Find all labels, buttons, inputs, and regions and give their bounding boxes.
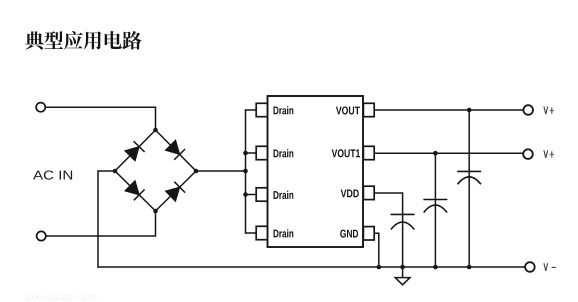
wire bridge left node to DC minus rail [98, 171, 115, 267]
label GND [340, 230, 358, 238]
diode D2 [165, 140, 185, 160]
wire C3 branch [468, 110, 470, 267]
title char 应 [64, 31, 83, 50]
wire GND pin to bottom rail [374, 233, 379, 267]
pin Drain4 square [256, 226, 267, 239]
wire drain bus vertical [245, 110, 247, 233]
title char 电 [105, 31, 122, 49]
label VOUT [336, 107, 360, 115]
label Drain pin1 [274, 106, 294, 114]
terminal V+ top [523, 105, 533, 115]
junction dot bridge top [153, 128, 158, 133]
label Drain pin2 [274, 149, 294, 157]
terminal AC bottom [37, 231, 46, 240]
junction dot bus pin3 [243, 192, 248, 197]
pin VOUT1 square [363, 146, 374, 159]
wire bridge edge top-right [156, 130, 197, 171]
wire bus stub pin4 [246, 232, 257, 234]
junction dot VOUT rail [467, 108, 472, 113]
IC body U1 [268, 96, 364, 247]
wire C2 branch [434, 153, 436, 267]
junction dot bus input [243, 169, 248, 174]
diode D1 [125, 141, 145, 161]
label VDD [341, 190, 359, 198]
junction dot bridge right [194, 169, 199, 174]
label V- bottom [544, 263, 556, 271]
junction dot bus pin2 [243, 151, 248, 156]
terminal V+ mid [523, 149, 533, 159]
watermark [25, 295, 96, 300]
wire bridge edge bottom-left [115, 171, 156, 211]
label V+ mid [544, 150, 554, 158]
label Drain pin4 [274, 229, 294, 237]
wire VOUT1 pin to V+ terminal [374, 152, 523, 154]
pin Drain1 square [256, 103, 267, 116]
wire AC top terminal to bridge top node [45, 107, 155, 130]
junction dot rail at C1 [400, 265, 405, 270]
wire bridge edge bottom-right [156, 171, 197, 211]
capacitor C1 [391, 214, 415, 229]
title char 用 [84, 31, 102, 49]
title char 典 [25, 31, 44, 49]
wire VOUT pin to V+ terminal [374, 109, 523, 111]
pin VOUT square [363, 103, 374, 116]
capacitor C2 [423, 200, 447, 213]
junction dot rail at GND stub [377, 265, 382, 270]
pin Drain2 square [256, 146, 267, 159]
wire AC bottom terminal to bridge bottom node [46, 211, 156, 236]
label V+ top [544, 107, 554, 115]
diode D4 [165, 182, 185, 202]
wire bus stub pin1 [246, 109, 257, 111]
title char 路 [122, 31, 141, 49]
wire VDD pin to C1 branch [374, 193, 402, 267]
label Drain pin3 [274, 191, 294, 199]
junction dot rail at C3 [467, 265, 472, 270]
junction dot bridge bottom [153, 209, 158, 214]
wire bottom rail [98, 266, 525, 268]
wire bridge edge top-left [115, 130, 156, 171]
capacitor C3 [457, 171, 481, 184]
wire ground stub [402, 267, 404, 278]
wire bus stub pin2 [246, 152, 257, 154]
ground symbol [395, 278, 410, 285]
wire bus stub pin3 [246, 194, 257, 196]
pin GND square [363, 227, 374, 240]
diode D3 [125, 181, 145, 201]
pin VDD square [363, 186, 374, 199]
label AC IN [33, 171, 72, 180]
label VOUT1 [332, 149, 360, 157]
junction dot bridge left [113, 169, 118, 174]
pin Drain3 square [256, 188, 267, 201]
title char 型 [44, 31, 63, 49]
wire bridge right node to drain bus [196, 170, 246, 172]
junction dot rail at C2 [433, 265, 438, 270]
terminal AC top [36, 103, 45, 112]
terminal V- [525, 262, 535, 272]
junction dot VOUT1 rail [433, 151, 438, 156]
